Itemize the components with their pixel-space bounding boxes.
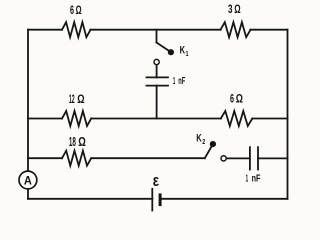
svg-text:3: 3 <box>228 2 233 16</box>
svg-text:K: K <box>180 45 186 57</box>
svg-text:1: 1 <box>246 174 249 185</box>
svg-text:Ω: Ω <box>76 3 82 17</box>
svg-text:K: K <box>196 133 202 145</box>
svg-text:ε: ε <box>153 171 159 190</box>
svg-text:6: 6 <box>70 3 74 17</box>
svg-text:Ω: Ω <box>236 91 243 105</box>
svg-text:12: 12 <box>69 92 75 106</box>
svg-text:1: 1 <box>173 76 176 87</box>
svg-text:Ω: Ω <box>78 135 86 149</box>
svg-text:nF: nF <box>178 76 185 87</box>
svg-text:nF: nF <box>252 174 261 185</box>
svg-text:Ω: Ω <box>77 92 85 106</box>
svg-text:1: 1 <box>186 49 189 58</box>
svg-text:A: A <box>24 173 32 187</box>
svg-text:2: 2 <box>202 137 205 146</box>
svg-text:6: 6 <box>230 91 234 105</box>
svg-text:Ω: Ω <box>234 2 241 16</box>
svg-text:18: 18 <box>69 135 76 149</box>
